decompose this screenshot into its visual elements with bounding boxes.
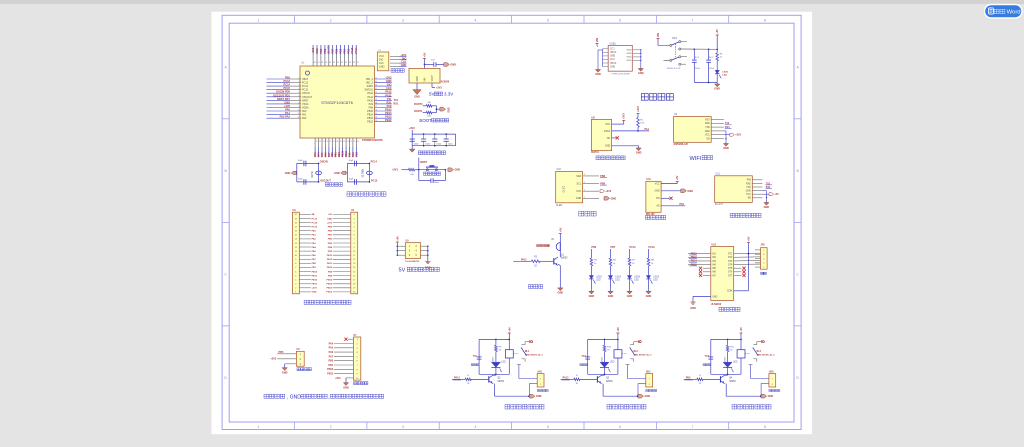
svg-text:PA1: PA1 xyxy=(302,114,307,117)
svg-text:Pin2 HDR2X3: Pin2 HDR2X3 xyxy=(405,261,420,263)
svg-text:15: 15 xyxy=(353,271,355,273)
svg-text:PA11: PA11 xyxy=(385,93,392,97)
svg-text:GND: GND xyxy=(401,64,407,67)
svg-text:PB6: PB6 xyxy=(591,246,596,249)
svg-text:PC14: PC14 xyxy=(312,221,318,224)
svg-text:47: 47 xyxy=(318,62,320,64)
svg-text:PA12: PA12 xyxy=(385,90,392,94)
svg-text:9: 9 xyxy=(295,259,296,261)
svg-text:+3V3: +3V3 xyxy=(605,190,611,193)
touch key U6 pin wires xyxy=(277,353,296,355)
svg-text:SCL: SCL xyxy=(577,183,582,186)
svg-text:RL3: RL3 xyxy=(757,351,762,353)
svg-text:GND: GND xyxy=(608,295,614,298)
svg-text:33: 33 xyxy=(375,120,377,122)
svg-text:PB9: PB9 xyxy=(285,76,291,80)
led LED2 xyxy=(589,276,593,279)
svg-text:GND: GND xyxy=(576,197,582,200)
svg-text:CC1: CC1 xyxy=(610,49,615,51)
resistor R9 1K relay led xyxy=(495,339,497,345)
svg-text:LED: LED xyxy=(634,280,639,282)
svg-text:PA12: PA12 xyxy=(367,92,373,95)
capacitor crystal Y1 bottom 30pF xyxy=(303,179,305,185)
wire buzzer to collector xyxy=(559,251,561,258)
relay RL1 output terminal xyxy=(525,341,530,343)
power +5V relay RL3 xyxy=(740,332,743,334)
uln2003 input wire PB12 xyxy=(688,253,711,255)
svg-text:45: 45 xyxy=(375,78,377,80)
svg-text:39: 39 xyxy=(375,99,377,101)
svg-text:PB13: PB13 xyxy=(312,284,318,286)
svg-text:PB8: PB8 xyxy=(324,48,327,53)
resistor R11 1K relay led xyxy=(727,339,729,345)
svg-text:SWIO: SWIO xyxy=(367,85,374,88)
port GND relay RL2 xyxy=(638,394,644,398)
svg-text:2: 2 xyxy=(354,218,355,220)
svg-text:30pF: 30pF xyxy=(349,179,354,181)
resistor R4 10k reset xyxy=(409,168,415,171)
svg-text:PB7: PB7 xyxy=(332,48,335,53)
caption mcu minimal system xyxy=(347,192,386,197)
svg-text:PA14: PA14 xyxy=(355,47,358,53)
port GND relay RL1 xyxy=(529,394,535,398)
svg-text:PA1: PA1 xyxy=(645,128,650,131)
svg-text:6: 6 xyxy=(619,18,621,22)
svg-text:3: 3 xyxy=(354,222,355,224)
power +5V relay RL1 xyxy=(508,332,511,334)
svg-text:GND: GND xyxy=(417,76,419,81)
wire contacts to connector XH3 xyxy=(750,365,752,379)
oled gnd port xyxy=(604,197,610,201)
svg-text:12: 12 xyxy=(298,117,300,119)
capacitor TC3 electrolytic xyxy=(710,339,712,374)
svg-text:+5V: +5V xyxy=(328,214,332,216)
svg-text:NRST RST: NRST RST xyxy=(277,97,290,101)
svg-text:8: 8 xyxy=(764,18,766,22)
svg-text:SW1: SW1 xyxy=(672,38,678,40)
svg-text:PA15: PA15 xyxy=(563,376,569,379)
svg-text:CC2: CC2 xyxy=(610,59,615,61)
caption download port xyxy=(391,69,404,73)
resistor R2 10K pullup xyxy=(637,127,639,131)
svg-text:18: 18 xyxy=(295,222,297,224)
zone dividers and labels xyxy=(222,15,801,429)
uln2003 output wire xyxy=(734,263,761,266)
power +5V relay RL2 xyxy=(616,332,619,334)
resistor R1 power led xyxy=(716,49,718,53)
header U5 left pin wire xyxy=(397,254,406,256)
svg-text:42: 42 xyxy=(337,62,339,64)
caption buzzer xyxy=(528,285,542,289)
svg-text:17: 17 xyxy=(353,280,355,282)
svg-text:5V: 5V xyxy=(399,268,406,274)
svg-text:VB1_2: VB1_2 xyxy=(366,78,374,81)
touch key U6 gnd xyxy=(284,367,286,368)
svg-text:PA15: PA15 xyxy=(351,47,354,53)
resistor base Q2 xyxy=(452,378,465,380)
sheet inner border xyxy=(229,23,794,422)
svg-text:GND: GND xyxy=(746,191,751,193)
svg-text:PA12: PA12 xyxy=(327,258,333,261)
svg-text:TX1: TX1 xyxy=(387,97,392,101)
svg-text:+3V3: +3V3 xyxy=(636,106,640,113)
svg-text:TC3: TC3 xyxy=(705,356,710,358)
port GND right of capacitor xyxy=(444,63,450,67)
svg-text:LED: LED xyxy=(610,362,615,364)
svg-text:7: 7 xyxy=(692,425,694,429)
svg-text:SRD-05VDC-SL-C: SRD-05VDC-SL-C xyxy=(634,355,653,357)
typec left pin wire xyxy=(603,48,609,50)
typec left pin wire xyxy=(603,58,609,60)
port GND boot xyxy=(440,107,446,111)
svg-text:+5V: +5V xyxy=(675,175,679,180)
typec left pin wire xyxy=(603,62,609,64)
svg-text:PA6: PA6 xyxy=(329,351,334,354)
svg-text:8: 8 xyxy=(764,425,766,429)
svg-text:GND: GND xyxy=(327,218,332,220)
svg-text:U10: U10 xyxy=(557,168,562,171)
svg-text:VBUS: VBUS xyxy=(610,63,617,65)
svg-text:NC: NC xyxy=(607,137,611,140)
svg-text:PB14: PB14 xyxy=(367,114,374,117)
svg-text:DO: DO xyxy=(656,197,660,200)
svg-text:PB7: PB7 xyxy=(611,246,616,249)
led LED5 xyxy=(646,276,650,279)
caption power circuit title xyxy=(641,94,673,101)
svg-text:10: 10 xyxy=(295,255,297,257)
svg-text:4: 4 xyxy=(584,174,585,176)
svg-text:BOOT: BOOT xyxy=(419,118,432,123)
svg-text:6: 6 xyxy=(299,95,300,97)
svg-text:GND: GND xyxy=(449,107,451,112)
svg-text:+5V: +5V xyxy=(507,327,511,332)
svg-text:S8050: S8050 xyxy=(497,381,504,383)
svg-text:GND: GND xyxy=(627,60,632,62)
svg-text:NRST: NRST xyxy=(420,161,427,164)
svg-text:LED1: LED1 xyxy=(493,356,495,362)
svg-text:38: 38 xyxy=(353,62,355,64)
svg-text:PB11: PB11 xyxy=(312,275,318,277)
svg-text:20: 20 xyxy=(295,214,297,216)
svg-text:AO: AO xyxy=(656,205,660,208)
svg-text:S8050: S8050 xyxy=(729,381,736,383)
svg-text:43: 43 xyxy=(333,62,335,64)
svg-text:13: 13 xyxy=(353,263,355,265)
svg-text:+5V: +5V xyxy=(715,29,719,34)
svg-text:3: 3 xyxy=(295,284,296,286)
svg-text:PC15: PC15 xyxy=(371,179,378,182)
svg-text:ESP8266-12F: ESP8266-12F xyxy=(674,144,689,146)
svg-text:15: 15 xyxy=(295,235,297,237)
svg-text:OSCIN: OSCIN xyxy=(302,92,310,95)
svg-text:PB14: PB14 xyxy=(327,283,333,286)
caption reset circuit xyxy=(424,172,441,175)
svg-text:+3V3: +3V3 xyxy=(270,358,277,361)
svg-text:GND: GND xyxy=(705,131,710,133)
svg-text:BOOT0: BOOT0 xyxy=(414,103,423,106)
svg-text:9: 9 xyxy=(299,106,300,108)
svg-text:GND: GND xyxy=(646,295,652,298)
svg-text:11: 11 xyxy=(298,113,300,115)
svg-text:GND: GND xyxy=(627,295,633,298)
svg-text:OSCOUT PD1: OSCOUT PD1 xyxy=(273,93,290,97)
svg-text:LED2: LED2 xyxy=(596,276,602,278)
svg-text:EN: EN xyxy=(748,198,752,200)
svg-text:GND: GND xyxy=(284,100,290,104)
touch key U7 gnd xyxy=(345,382,347,383)
relay RL3 coil xyxy=(740,339,742,349)
svg-text:+5V: +5V xyxy=(616,327,620,332)
svg-text:VIN: VIN xyxy=(656,33,660,37)
svg-text:+3V3: +3V3 xyxy=(335,378,341,380)
svg-text:GND: GND xyxy=(638,72,644,75)
emitter wire gnd Q3 xyxy=(602,383,604,385)
svg-text:RL2: RL2 xyxy=(634,351,639,353)
svg-text:PA0: PA0 xyxy=(285,108,290,112)
power circuit gnd xyxy=(716,82,718,84)
svg-text:OT4: OT4 xyxy=(728,265,733,267)
svg-text:41: 41 xyxy=(341,62,343,64)
port GND relay RL3 xyxy=(761,394,767,398)
svg-text:GND: GND xyxy=(636,152,642,155)
svg-text:PC14: PC14 xyxy=(302,85,309,88)
svg-text:1: 1 xyxy=(257,425,259,429)
header U5 right pin wire xyxy=(421,250,428,252)
svg-text:20: 20 xyxy=(353,292,355,294)
svg-text:GND: GND xyxy=(610,56,615,58)
svg-text:+3V3: +3V3 xyxy=(327,222,333,224)
svg-text:TXD: TXD xyxy=(746,187,751,189)
svg-text:LED1: LED1 xyxy=(601,356,603,362)
svg-text:23: 23 xyxy=(353,141,355,143)
svg-text:GND: GND xyxy=(690,307,696,310)
svg-text:OLED: OLED xyxy=(563,185,566,192)
svg-text:PB12: PB12 xyxy=(312,280,318,282)
mq135 do pin x xyxy=(661,197,669,199)
svg-text:OSCOUT: OSCOUT xyxy=(302,96,313,99)
svg-text:VSSA: VSSA xyxy=(302,103,309,106)
svg-text:24: 24 xyxy=(357,141,359,143)
svg-text:17: 17 xyxy=(295,226,297,228)
relay RL3 contacts xyxy=(745,353,750,355)
svg-text:+5V: +5V xyxy=(423,52,427,57)
svg-text:GND: GND xyxy=(687,190,693,193)
svg-text:PA7: PA7 xyxy=(329,355,334,358)
svg-text:PA0: PA0 xyxy=(680,203,685,206)
svg-text:LED0: LED0 xyxy=(722,72,728,74)
svg-text:PA11: PA11 xyxy=(521,258,527,261)
svg-text:GND: GND xyxy=(536,395,542,398)
typec right gnd bus xyxy=(640,50,642,68)
relay RL2 top bus xyxy=(588,338,618,340)
svg-text:VCC: VCC xyxy=(605,123,610,126)
svg-text:PA9: PA9 xyxy=(369,103,374,106)
svg-text:GND: GND xyxy=(558,292,564,295)
svg-text:VSS: VSS xyxy=(355,152,358,157)
caption touch key big xyxy=(354,382,368,385)
svg-text:39: 39 xyxy=(349,62,351,64)
svg-text:GND: GND xyxy=(285,172,291,175)
svg-text:LED3: LED3 xyxy=(615,276,621,278)
relay RL2 coil xyxy=(617,339,619,349)
typec right pin wire xyxy=(633,59,641,61)
svg-text:TC1: TC1 xyxy=(473,356,478,358)
svg-text:COM: COM xyxy=(727,291,732,293)
svg-text:GND: GND xyxy=(627,53,632,55)
svg-text:GND: GND xyxy=(654,190,660,193)
svg-text:1: 1 xyxy=(295,292,296,294)
svg-text:OT2: OT2 xyxy=(728,257,733,259)
svg-text:19: 19 xyxy=(295,218,297,220)
wire contacts to connector XH2 xyxy=(627,365,629,379)
uln2003 output nc xyxy=(734,274,742,276)
svg-text:GND: GND xyxy=(282,371,288,374)
resistor R10 1K relay led xyxy=(604,339,606,345)
capacitor crystal Y2 top 30pF xyxy=(354,161,356,167)
svg-text:14: 14 xyxy=(323,141,325,143)
svg-text:PA1: PA1 xyxy=(285,111,290,115)
svg-text:38: 38 xyxy=(375,102,377,104)
svg-text:RXD: RXD xyxy=(746,183,751,185)
svg-text:34: 34 xyxy=(375,117,377,119)
svg-text:40: 40 xyxy=(345,62,347,64)
svg-text:44: 44 xyxy=(375,81,377,83)
svg-text:6: 6 xyxy=(354,235,355,237)
svg-text:11: 11 xyxy=(353,255,355,257)
svg-text:3: 3 xyxy=(402,425,404,429)
svg-text:4: 4 xyxy=(299,88,300,90)
uln2003 input nc xyxy=(703,267,711,269)
svg-text:9: 9 xyxy=(354,247,355,249)
svg-text:30pF: 30pF xyxy=(298,160,303,162)
svg-text:GND: GND xyxy=(595,73,601,76)
svg-text:45: 45 xyxy=(325,62,327,64)
svg-text:5: 5 xyxy=(547,18,549,22)
capacitor TC1 electrolytic xyxy=(478,339,480,374)
svg-text:+3V3: +3V3 xyxy=(735,134,741,137)
svg-text:PB5: PB5 xyxy=(339,48,342,53)
svg-text:VCC: VCC xyxy=(746,194,751,196)
svg-text:GND: GND xyxy=(764,206,770,209)
wifi vcc port xyxy=(724,134,730,136)
svg-text:PA2 PA3: PA2 PA3 xyxy=(280,115,291,119)
svg-text:6: 6 xyxy=(619,425,621,429)
caption mcu pin headers xyxy=(304,300,351,304)
svg-text:DIO: DIO xyxy=(387,83,392,87)
caption relay control output RL1 xyxy=(505,405,544,410)
uln2003 input wire PB13 xyxy=(688,256,711,258)
svg-text:1: 1 xyxy=(354,214,355,216)
svg-text:10K: 10K xyxy=(640,123,644,125)
svg-text:20: 20 xyxy=(343,141,345,143)
svg-text:GND: GND xyxy=(316,48,319,54)
svg-text:5: 5 xyxy=(295,275,296,277)
svg-text:30pF: 30pF xyxy=(298,179,303,181)
svg-text:PA11: PA11 xyxy=(368,96,374,99)
svg-text:LED1: LED1 xyxy=(724,356,726,362)
uln2003 output wire xyxy=(734,252,761,255)
svg-text:PA0: PA0 xyxy=(302,110,307,113)
svg-text:+5V: +5V xyxy=(746,236,750,241)
svg-text:3: 3 xyxy=(402,18,404,22)
capacitor TC2 electrolytic xyxy=(587,339,589,374)
emitter wire gnd Q4 xyxy=(725,383,727,385)
svg-text:GND: GND xyxy=(611,197,617,200)
svg-text:12: 12 xyxy=(316,141,318,143)
svg-text:SU-03T: SU-03T xyxy=(715,203,724,206)
svg-text:+3V3: +3V3 xyxy=(385,76,392,80)
svg-text:TXD: TXD xyxy=(705,127,710,129)
transistor Q4 NPN relay xyxy=(720,376,722,382)
svg-text:+5V: +5V xyxy=(395,236,399,241)
svg-text:PB6: PB6 xyxy=(336,48,339,53)
svg-text:U11: U11 xyxy=(647,178,652,181)
mq135 gnd port xyxy=(661,190,680,192)
svg-text:5: 5 xyxy=(547,425,549,429)
caption voice recognition module xyxy=(730,213,761,217)
svg-text:LED: LED xyxy=(596,280,601,282)
gnd LED4 xyxy=(629,290,631,291)
svg-text:PA12: PA12 xyxy=(454,376,460,379)
dht11 data wire xyxy=(612,130,650,132)
svg-text:19: 19 xyxy=(353,288,355,290)
svg-text:10K: 10K xyxy=(427,102,431,104)
svg-text:GND: GND xyxy=(610,66,615,68)
svg-text:GND: GND xyxy=(627,50,632,52)
transistor Q1 NPN xyxy=(553,258,555,264)
capacitor crystal Y2 bottom 30pF xyxy=(354,179,356,185)
svg-text:PC13: PC13 xyxy=(312,218,318,220)
svg-text:+3V3: +3V3 xyxy=(436,86,442,89)
mcu U1 bottom pins xyxy=(314,138,316,147)
svg-text:PC14: PC14 xyxy=(284,83,291,87)
wire gnd bus xyxy=(427,246,429,259)
wire boot join xyxy=(435,106,437,113)
caption stepper motor xyxy=(719,307,740,311)
svg-text:GND: GND xyxy=(414,95,420,98)
power circuit bottom bus xyxy=(694,81,717,83)
typec left pin wire xyxy=(603,55,609,57)
resistor R5 1k xyxy=(590,258,593,266)
relay RL2 output terminal xyxy=(634,341,639,343)
svg-text:10: 10 xyxy=(298,110,300,112)
svg-text:VOUT: VOUT xyxy=(432,75,434,82)
svg-text:17: 17 xyxy=(333,141,335,143)
wire +5V to regulator xyxy=(423,58,426,60)
note caption about touch keys xyxy=(264,394,285,398)
svg-text:36: 36 xyxy=(375,110,377,112)
svg-text:2: 2 xyxy=(295,288,296,290)
header U5 right pin wire xyxy=(421,245,428,247)
wires crystal Y1 xyxy=(296,172,298,174)
svg-text:BOOT1: BOOT1 xyxy=(414,110,423,113)
oled vcc port xyxy=(600,190,605,193)
relay RL1 coil xyxy=(508,339,510,349)
svg-text:GND: GND xyxy=(455,169,461,172)
typec right pin wire xyxy=(633,56,641,58)
svg-text:PB12: PB12 xyxy=(367,121,374,124)
svg-text:7: 7 xyxy=(692,18,694,22)
svg-text:VBUS: VBUS xyxy=(610,52,617,54)
voice gnd wire xyxy=(762,190,766,192)
svg-text:GND: GND xyxy=(425,266,431,269)
relay RL3 bottom bus xyxy=(711,373,741,375)
svg-text:PB3: PB3 xyxy=(686,376,691,379)
relay RL1 bottom bus xyxy=(479,373,509,375)
svg-text:2: 2 xyxy=(584,190,585,192)
relay RL1 contacts xyxy=(513,353,518,355)
emitter wire gnd Q2 xyxy=(493,383,495,385)
